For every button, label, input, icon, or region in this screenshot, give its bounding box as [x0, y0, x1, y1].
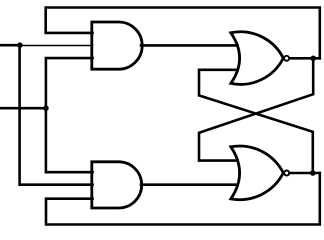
nor-gate U3 inversion bubble: [284, 56, 289, 61]
wire: thin branch from J junction to AND U1 middle input: [20, 45, 93, 47]
wire: cross-coupling from U3 output down to NOR U4 top input: [199, 58, 313, 160]
node: junction on input J: [17, 42, 23, 48]
wire: AND U2 output to NOR U4 bottom input: [141, 183, 238, 186]
wire: AND U1 output to NOR U3 top input: [141, 44, 238, 47]
wire: top feedback loop from NOR U3 output to AND U1 top input: [46, 8, 320, 59]
nor-gate U4 body: [231, 146, 283, 200]
wire: NOR U4 output line: [290, 172, 320, 175]
wire: cross-coupling from U4 output up to NOR U3 bottom input: [199, 70, 313, 173]
and-gate U2: [92, 162, 142, 208]
wire: CLK vertical bus to AND U1 bottom input and AND U2 top input: [46, 58, 93, 172]
node: junction on CLK vertical: [43, 105, 49, 111]
wire: bottom feedback loop from NOR U4 output to AND U2 bottom input: [46, 173, 320, 225]
nor-gate U4 inversion bubble: [284, 171, 289, 176]
wire: input J left segment: [0, 44, 20, 47]
wire: NOR U3 output line: [290, 57, 320, 60]
node: junction on NOR U4 output: [310, 170, 316, 176]
nor-gate U3 body: [231, 32, 283, 85]
and-gate U1: [92, 22, 142, 69]
wire: input CLK left segment: [0, 107, 46, 110]
node: junction on NOR U3 output: [310, 56, 316, 62]
wire: J vertical branch down to AND U2 middle input: [20, 45, 93, 185]
